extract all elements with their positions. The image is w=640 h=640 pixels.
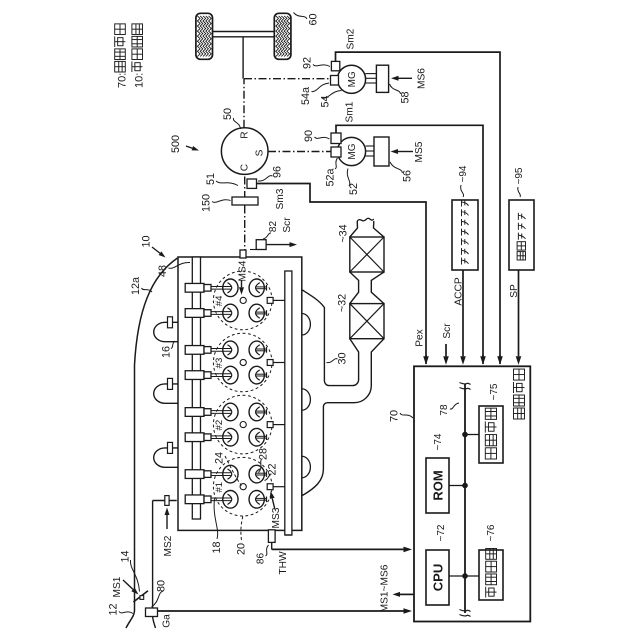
svg-text:86: 86	[256, 553, 267, 565]
svg-text:70:: 70:	[116, 73, 128, 88]
svg-text:51: 51	[205, 173, 217, 185]
svg-text:Sm2: Sm2	[346, 28, 357, 49]
svg-text:MS2: MS2	[163, 535, 174, 556]
svg-text:150: 150	[201, 194, 213, 212]
svg-text:MG: MG	[347, 71, 358, 87]
svg-text:22: 22	[267, 463, 279, 475]
svg-text:~74: ~74	[433, 433, 444, 450]
svg-text:S: S	[255, 149, 266, 156]
svg-text:~72: ~72	[436, 524, 447, 541]
svg-text:Sm3: Sm3	[275, 188, 286, 209]
svg-text:500: 500	[170, 135, 182, 153]
svg-text:14: 14	[120, 550, 132, 562]
svg-text:70: 70	[389, 410, 401, 422]
svg-text:~75: ~75	[489, 383, 500, 400]
svg-text:82: 82	[268, 221, 279, 233]
svg-text:48: 48	[157, 265, 169, 277]
svg-text:MS4: MS4	[238, 260, 249, 281]
svg-text:12a: 12a	[130, 277, 142, 295]
svg-text:52a: 52a	[325, 168, 337, 186]
svg-text:~34: ~34	[338, 224, 350, 242]
svg-text:CPU: CPU	[431, 564, 446, 591]
svg-text:Scr: Scr	[442, 323, 453, 339]
svg-text:12: 12	[108, 603, 120, 615]
svg-text:10:: 10:	[134, 73, 146, 88]
svg-text:16: 16	[161, 346, 173, 358]
svg-text:30: 30	[337, 352, 349, 364]
svg-text:Scr: Scr	[282, 217, 293, 233]
svg-text:90: 90	[303, 130, 315, 142]
svg-text:SP: SP	[509, 284, 520, 298]
svg-text:18: 18	[211, 541, 223, 553]
svg-text:THW: THW	[278, 551, 289, 575]
svg-text:10: 10	[141, 235, 153, 247]
svg-text:20: 20	[236, 543, 248, 555]
svg-text:56: 56	[402, 170, 414, 182]
svg-text:#4: #4	[214, 295, 225, 306]
svg-text:MS1: MS1	[112, 576, 123, 597]
svg-text:#1: #1	[214, 482, 225, 493]
svg-text:Sm1: Sm1	[345, 101, 356, 122]
svg-text:54a: 54a	[300, 87, 312, 105]
svg-text:#2: #2	[214, 420, 225, 431]
svg-text:MS1~MS6: MS1~MS6	[380, 564, 391, 612]
svg-text:80: 80	[156, 580, 168, 592]
svg-text:MG: MG	[347, 143, 358, 159]
svg-text:~95: ~95	[514, 167, 525, 184]
svg-text:R: R	[240, 131, 251, 138]
svg-text:~76: ~76	[486, 524, 497, 541]
svg-text:58: 58	[400, 91, 412, 103]
svg-text:28: 28	[258, 448, 270, 460]
svg-text:~32: ~32	[337, 294, 349, 312]
svg-text:MS6: MS6	[417, 68, 428, 89]
svg-text:Ga: Ga	[162, 614, 173, 628]
svg-text:~94: ~94	[458, 165, 469, 182]
svg-text:60: 60	[308, 13, 320, 25]
svg-text:C: C	[240, 164, 251, 171]
svg-text:50: 50	[222, 108, 234, 120]
svg-text:MS3: MS3	[271, 507, 282, 528]
svg-text:#3: #3	[214, 358, 225, 369]
svg-text:92: 92	[302, 57, 314, 69]
svg-text:ACCP: ACCP	[454, 277, 465, 306]
svg-text:MS5: MS5	[414, 141, 425, 162]
svg-text:ROM: ROM	[431, 470, 446, 500]
svg-text:78: 78	[439, 404, 450, 416]
svg-text:24: 24	[214, 452, 226, 464]
svg-text:96: 96	[272, 166, 284, 178]
svg-text:Pex: Pex	[415, 329, 426, 347]
